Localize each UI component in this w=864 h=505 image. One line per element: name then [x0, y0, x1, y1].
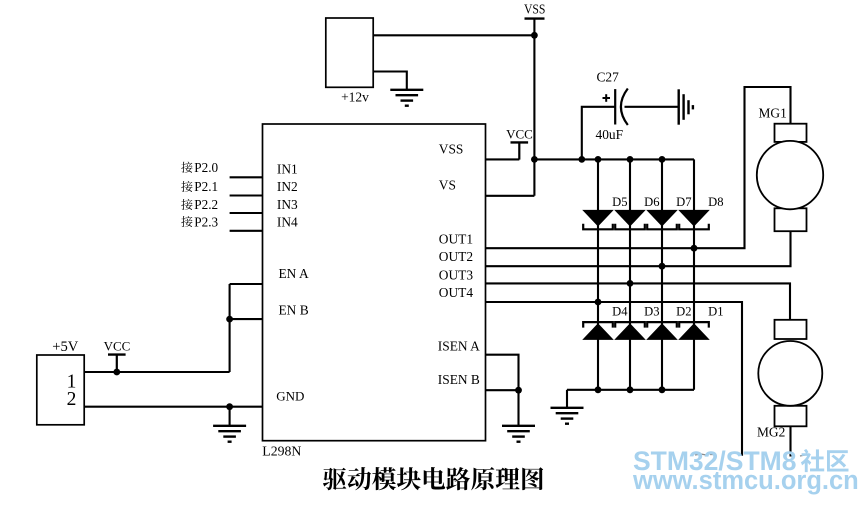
pin IN3 wire [230, 212, 263, 214]
wire +5V pin1 to EN vertical [84, 371, 229, 373]
wire diode line x=662 (D7/D2) [661, 159, 663, 389]
pin OUT4 wire (down stub) [486, 302, 743, 456]
pin OUT2 wire to MG1 bottom [486, 231, 791, 266]
svg-text:IN3: IN3 [277, 197, 298, 212]
pin EN B wire [230, 318, 263, 320]
pin IN1 wire [230, 176, 263, 178]
junction dot EN B [226, 316, 233, 323]
junction dot bus/diode line x=598 [595, 156, 602, 163]
svg-text:EN B: EN B [279, 303, 309, 318]
svg-text:D4: D4 [612, 304, 628, 318]
svg-text:VCC: VCC [104, 339, 131, 354]
svg-text:+12v: +12v [341, 90, 369, 105]
junction dot +12v/VSS [531, 32, 538, 39]
svg-text:D1: D1 [708, 304, 723, 318]
junction dot bus/diode line x=630 [627, 156, 634, 163]
svg-text:MG1: MG1 [759, 106, 787, 121]
junction dot bottom bus x=630 [627, 386, 634, 393]
wire diode line x=630 (D6/D3) [629, 159, 631, 389]
pin label VSS [439, 142, 464, 157]
power source +12v [326, 18, 373, 105]
svg-text:MG2: MG2 [757, 425, 785, 440]
diode D8 [679, 195, 723, 229]
svg-text:L298N: L298N [262, 443, 301, 458]
diode D2 [647, 304, 691, 339]
junction dot bus/C27 [578, 156, 585, 163]
svg-text:ISEN B: ISEN B [438, 372, 480, 387]
pin IN4 wire [230, 230, 263, 232]
pin label ISEN B [438, 372, 480, 387]
svg-text:VSS: VSS [439, 142, 464, 157]
pin label OUT2 [439, 249, 473, 264]
svg-text:D8: D8 [708, 195, 723, 209]
diode D1 [679, 304, 723, 339]
capacitor C27 plus sign [603, 94, 611, 102]
wire diode line x=694 (D8/D1) [693, 159, 695, 389]
svg-text:OUT4: OUT4 [439, 285, 474, 300]
svg-text:GND: GND [276, 389, 304, 404]
wire EN A to EN B to +5V pin1 (vertical) [229, 284, 231, 372]
artifact specks [695, 454, 805, 456]
diode D4 [583, 304, 628, 339]
pin label IN4 [277, 215, 298, 230]
watermark STM32/STM8社区 [633, 446, 848, 476]
svg-text:VCC: VCC [506, 127, 533, 142]
capacitor C27 left plate [614, 89, 616, 124]
ground (+12v source) [390, 90, 423, 106]
power symbol VSS (net VSS, top) [524, 3, 546, 19]
pin label OUT3 [439, 268, 474, 283]
pin VSS wire to VCC [486, 158, 520, 160]
diode D3 [615, 304, 659, 339]
pin EN A wire [230, 283, 263, 285]
junction dot OUT3/D6 [627, 280, 634, 287]
wire +12v positive to VSS line [373, 34, 534, 36]
svg-text:D5: D5 [612, 195, 627, 209]
label L298N [262, 443, 301, 458]
capacitor C27 right wire [625, 106, 678, 108]
junction dot GND/ground tap [226, 403, 233, 410]
svg-text:D6: D6 [644, 195, 659, 209]
net label 接P2.0 [181, 160, 218, 175]
pin OUT3 wire to MG2 top [486, 283, 791, 319]
wire VSS stem down to VS node [533, 19, 535, 196]
wire bottom bus tap to ground [566, 390, 568, 407]
pin label OUT4 [439, 285, 474, 300]
svg-text:VS: VS [439, 177, 456, 192]
net label 接P2.3 [181, 214, 218, 229]
junction dot OUT2/D7 [659, 263, 666, 270]
svg-text:OUT1: OUT1 [439, 231, 473, 246]
svg-text:D7: D7 [676, 195, 691, 209]
svg-text:IN1: IN1 [277, 161, 298, 176]
pin label GND [276, 389, 304, 404]
motor MG2 [757, 320, 822, 440]
svg-text:OUT3: OUT3 [439, 268, 474, 283]
wire diode line x=598 (D5/D4) [597, 159, 599, 389]
pin ISEN A wire [486, 355, 519, 425]
diode D5 [583, 195, 627, 229]
junction dot bus/VSS-line [531, 156, 538, 163]
svg-text:C27: C27 [597, 70, 620, 85]
net label 接P2.1 [181, 179, 218, 194]
svg-text:+5V: +5V [52, 339, 79, 355]
power symbol VCC (left) [104, 339, 131, 372]
junction dot OUT1/D8 [691, 245, 698, 252]
svg-text:P2.3: P2.3 [194, 214, 218, 229]
caption 驱动模块电路原理图 [323, 467, 543, 490]
pin VS wire [486, 195, 535, 197]
diode D6 [615, 195, 659, 229]
svg-text:ISEN A: ISEN A [438, 338, 480, 353]
svg-text:IN2: IN2 [277, 179, 298, 194]
pin label OUT1 [439, 231, 473, 246]
pin label ISEN A [438, 338, 480, 353]
junction dot bottom bus x=598 [595, 386, 602, 393]
pin label EN A [279, 266, 309, 281]
ground (diode bus) [551, 408, 584, 424]
watermark www.stmcu.org.cn [632, 467, 859, 495]
wire +5V pin2 to GND pin [84, 406, 262, 408]
svg-text:www.stmcu.org.cn: www.stmcu.org.cn [632, 467, 859, 495]
svg-text:D3: D3 [644, 304, 659, 318]
pin OUT1 wire to MG1 top [486, 87, 791, 248]
motor MG1 [757, 106, 823, 232]
junction dot bus/diode line x=662 [659, 156, 666, 163]
svg-text:P2.0: P2.0 [194, 160, 218, 175]
svg-text:40uF: 40uF [596, 127, 624, 142]
junction dot VCC/pin1 [113, 369, 120, 376]
wire +12v negative to ground [373, 72, 407, 90]
pin label IN2 [277, 179, 298, 194]
pin label EN B [279, 303, 309, 318]
pin ISEN B wire [486, 389, 519, 391]
capacitor C27 left wire + drop to bus [582, 107, 615, 160]
capacitor C27 designator [597, 70, 620, 85]
power symbol VCC (right) [506, 127, 533, 160]
pin label IN1 [277, 161, 298, 176]
svg-text:IN4: IN4 [277, 215, 298, 230]
capacitor C27 curved plate [621, 89, 628, 126]
wire top bus (VS net) from VSS line to D8 [534, 158, 694, 160]
svg-text:EN A: EN A [279, 266, 309, 281]
ground (logic GND) [213, 426, 246, 442]
junction dot bottom bus x=662 [659, 386, 666, 393]
svg-text:VSS: VSS [524, 3, 546, 18]
wire bottom bus (diode GND net) [567, 389, 694, 391]
wire ground tap [229, 407, 231, 425]
svg-text:OUT2: OUT2 [439, 249, 473, 264]
pin IN2 wire [230, 194, 263, 196]
diode D7 [647, 195, 691, 229]
wire MG2 bottom stub [789, 426, 791, 456]
svg-text:2: 2 [67, 389, 77, 410]
pin label VS [439, 177, 456, 192]
svg-text:P2.2: P2.2 [194, 197, 218, 212]
op IC U1 L298N body [263, 124, 486, 441]
ground (ISEN) [502, 426, 535, 442]
junction dot ISEN B [515, 387, 522, 394]
net label 接P2.2 [181, 197, 218, 212]
pin label IN3 [277, 197, 298, 212]
capacitor C27 value 40uF [596, 127, 624, 142]
connector +5V [37, 339, 84, 425]
svg-text:P2.1: P2.1 [194, 179, 218, 194]
svg-text:D2: D2 [676, 304, 691, 318]
junction dot OUT4/D5 [595, 299, 602, 306]
ground (C27, rotated) [679, 89, 693, 124]
